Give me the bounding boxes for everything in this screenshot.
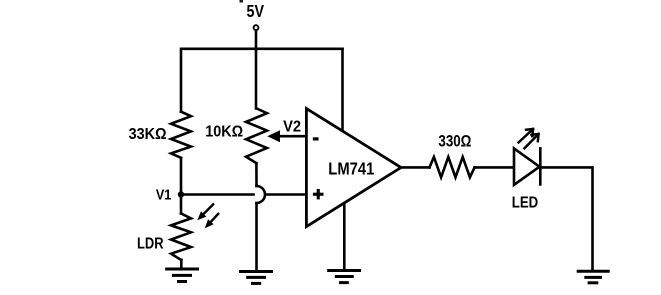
LDR light arrows — [197, 204, 219, 229]
wire wiper to op-amp - input — [279, 135, 306, 138]
svg-text:LM741: LM741 — [328, 159, 374, 179]
potentiometer wiper arrow — [267, 130, 280, 142]
svg-text:LDR: LDR — [137, 235, 164, 252]
svg-text:10KΩ: 10KΩ — [205, 124, 243, 141]
wire hop over V1 wire (crossing, no connection) — [257, 186, 266, 203]
wire top rail with left drop to 33K — [181, 49, 343, 112]
wire LDR bottom to ground — [180, 260, 183, 268]
5V supply terminal — [254, 25, 259, 30]
LED D1 — [514, 147, 540, 186]
node V1 junction dot — [178, 191, 184, 197]
svg-text:V1: V1 — [156, 186, 172, 203]
wire 33K bottom through node V1 to LDR top — [180, 158, 183, 214]
wire 330 resistor to LED anode — [475, 166, 514, 169]
ground (under op-amp) — [327, 271, 361, 283]
LED emission arrows — [519, 129, 539, 148]
svg-text:LED: LED — [512, 195, 539, 212]
resistor R3 330Ω — [430, 157, 475, 177]
op-amp - input sign — [313, 137, 319, 140]
wire hop bottom down to ground — [255, 203, 258, 271]
op-amp + input sign — [313, 189, 324, 199]
photoresistor LDR — [171, 213, 191, 260]
wire crossing to op-amp + input (right segment) — [266, 193, 307, 196]
op-amp U1 LM741 — [306, 109, 401, 227]
svg-text:V2: V2 — [283, 118, 301, 135]
wire node V1 to crossing (left segment) — [181, 193, 254, 196]
wire pot bottom to hop — [255, 163, 258, 186]
resistor R1 33KΩ — [171, 112, 191, 158]
svg-text:33KΩ: 33KΩ — [129, 126, 167, 143]
ground (right, LED return) — [577, 271, 610, 283]
wire 5V vertical down to potentiometer top — [255, 30, 258, 108]
potentiometer R2 10KΩ — [246, 108, 267, 163]
wire op-amp output to 330 resistor — [401, 166, 430, 169]
wire op-amp bottom power to ground — [343, 203, 346, 270]
svg-text:5V: 5V — [247, 1, 265, 21]
ground (under potentiometer) — [239, 272, 273, 284]
ground (under LDR) — [165, 269, 199, 282]
svg-text:330Ω: 330Ω — [438, 131, 471, 150]
wire LED cathode right and down to ground — [541, 167, 593, 270]
wire right drop from rail to op-amp top edge — [341, 49, 344, 131]
artifact mark top edge — [240, 0, 244, 3]
